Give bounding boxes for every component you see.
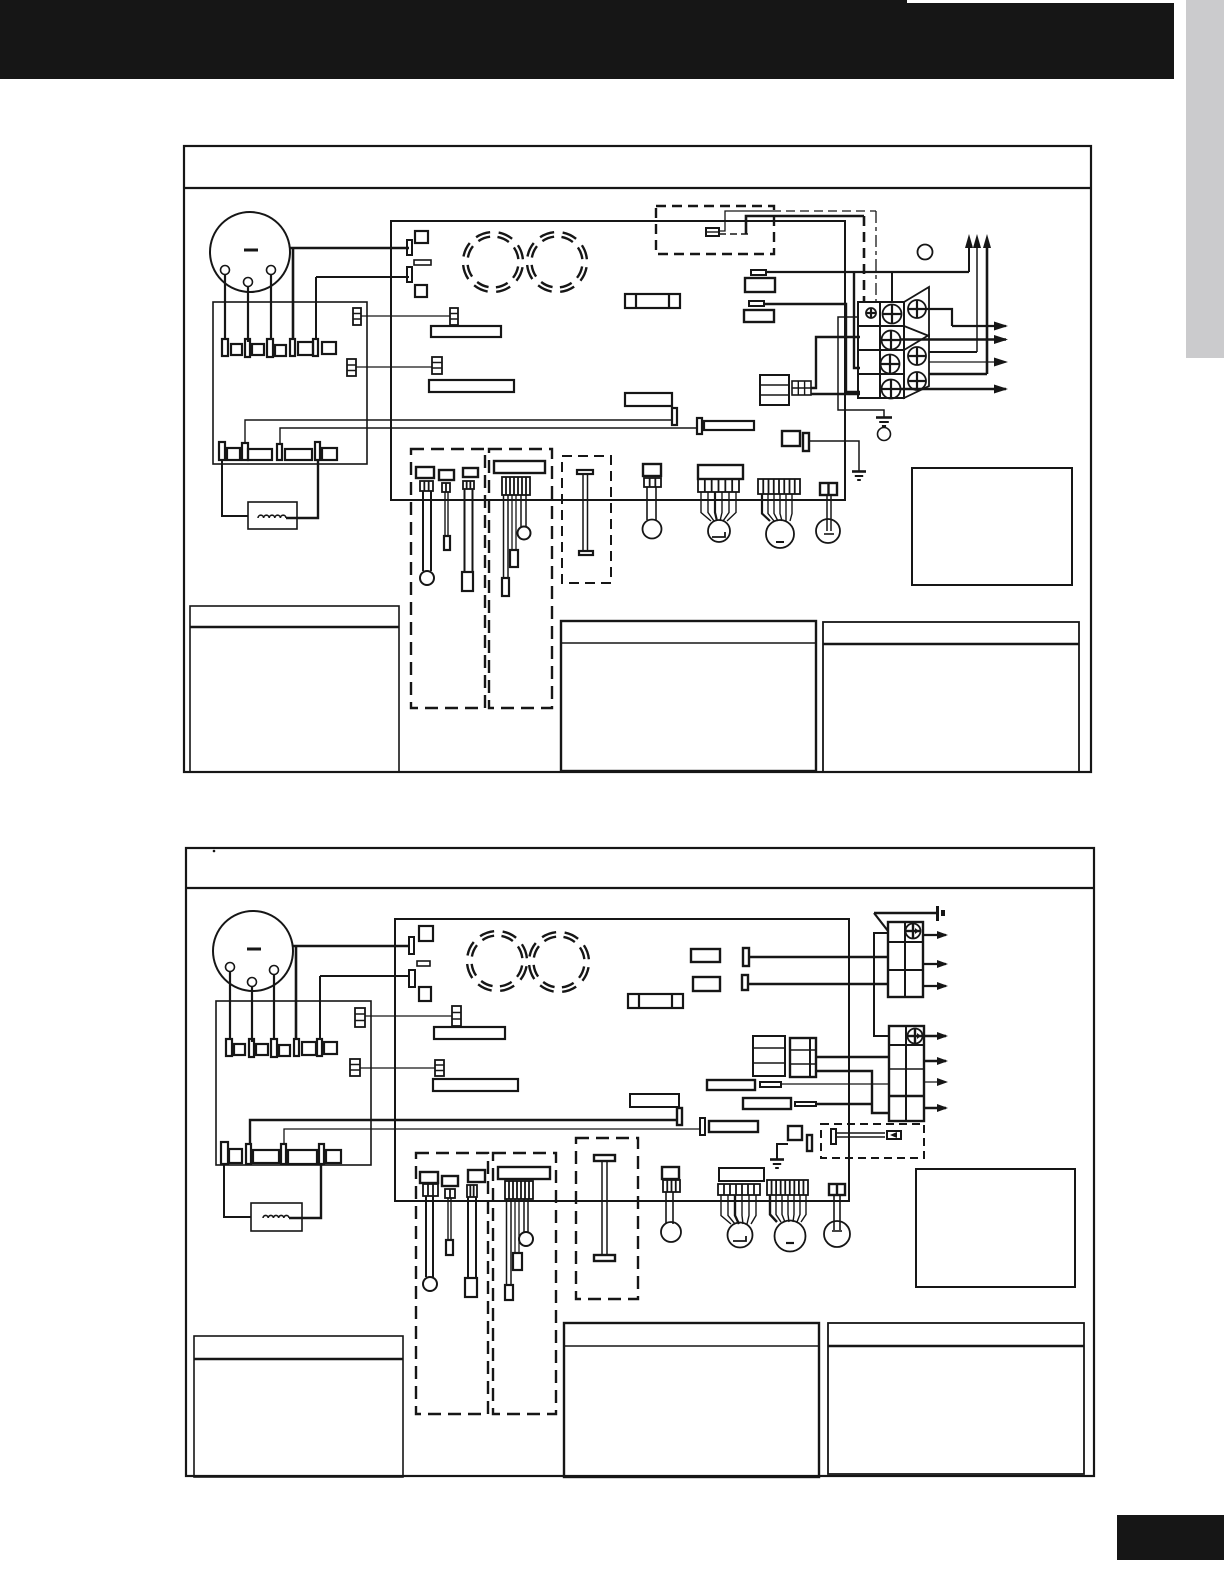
connector H pins (663, 1180, 680, 1192)
aux connector F (820, 483, 837, 495)
relay bar RB2 (743, 1098, 791, 1109)
wire T5 to block A (749, 956, 888, 958)
speck (213, 850, 216, 853)
block A ground stub (936, 906, 945, 921)
block B arrow 1 (924, 1032, 948, 1040)
fig2 box I plug 2 stub (446, 1240, 453, 1255)
mounting hole below ground (878, 428, 891, 441)
igniter dashed box I (411, 449, 485, 708)
wire W2 to block row4 (764, 304, 860, 392)
connector G3 wires (834, 1195, 840, 1230)
wire from spade terminal thin (719, 211, 772, 231)
figure 1 title band line (184, 187, 1091, 189)
wire K2 (356, 366, 432, 368)
fig2 box I plug 2 housing (442, 1176, 458, 1186)
fig2 box II connector pins (505, 1181, 533, 1199)
transformer winding T2a (462, 926, 532, 996)
field wire arrow up 2 (973, 234, 981, 352)
connector G1 wires (721, 1195, 756, 1224)
aux ring F (816, 519, 840, 543)
figure 2 title band line (186, 887, 1094, 889)
fig2 box I plug 2 wires (448, 1198, 451, 1240)
connector H housing (662, 1167, 679, 1179)
wire to ground 2 (809, 441, 859, 471)
board2 connector J2 (409, 970, 415, 987)
blower connector E wires (762, 494, 792, 521)
chassis hole (918, 245, 933, 260)
door switch dashed box (656, 206, 774, 254)
block A screw (906, 924, 921, 939)
blower motor M1 (210, 212, 290, 292)
connector G2 wires (770, 1195, 806, 1222)
connector K4 left (350, 1059, 360, 1076)
terminal block flange upper (904, 287, 929, 336)
block B arrow 3 (924, 1078, 948, 1086)
inducer motor circle G1 (728, 1223, 753, 1248)
box II connector pins (502, 477, 530, 495)
board connector P1 (760, 375, 789, 405)
wire neutral2 to board (320, 976, 409, 1040)
board jumper bar (414, 260, 431, 265)
legend box (912, 468, 1072, 585)
relay R5 (691, 949, 720, 962)
fig2 box I plug 3 terminal (465, 1278, 477, 1297)
transformer winding T1a (458, 227, 528, 297)
fig2 box I plug 3 wires (468, 1197, 476, 1278)
block B screw (908, 1029, 923, 1044)
box I plug 1 ring (420, 571, 434, 585)
flange screw B3 (908, 372, 926, 390)
page number black box (1117, 1515, 1224, 1560)
figure 1 frame (184, 146, 1091, 772)
box I plug 1 pins (420, 481, 433, 491)
relay bar RL3 (434, 1027, 505, 1039)
board2 component S2 (788, 1126, 802, 1140)
wire motor2 pin3 (273, 975, 275, 1041)
igniter connector C housing (643, 464, 661, 476)
terminal T5 (743, 948, 749, 966)
box II wire pair 2 (512, 495, 516, 550)
relay bar RL1 (431, 326, 501, 337)
wire motor line to board (290, 248, 409, 340)
notes box right fig2 (828, 1323, 1084, 1474)
board connector J1 pad (415, 231, 428, 243)
board component S1 (782, 431, 800, 446)
control board 2 (395, 919, 849, 1201)
terminal spade V2 (700, 1118, 705, 1135)
terminal row 2 (219, 442, 337, 460)
terminal row 2 fig2 (221, 1142, 341, 1164)
fig2 box I plug 1 ring (423, 1277, 437, 1291)
box II wire pair 3 (521, 495, 526, 527)
relay R6 (693, 977, 720, 991)
wire motor2 line to board (293, 946, 409, 1040)
ground wire fig2 (777, 1144, 788, 1159)
figure 2 frame (186, 848, 1094, 1476)
board connector P2 grid (792, 381, 811, 395)
wire W3 to block row2 (811, 337, 860, 388)
aux ring G3 (824, 1221, 850, 1247)
igniter ring C (643, 520, 662, 539)
wire motor pin1 to terminal row (224, 275, 226, 341)
terminal block TBB (889, 1026, 924, 1121)
box I plug 3 housing (463, 468, 478, 477)
blower motor circle E (766, 520, 794, 548)
box II ring terminal (518, 527, 531, 540)
transformer winding T2b (524, 927, 594, 997)
fuse F1 (625, 294, 680, 308)
fig2 box I plug 3 housing (468, 1170, 485, 1182)
flame sensor dashed box III (562, 456, 611, 583)
wire drop to block row3 (854, 272, 860, 368)
wire W4 to block row4 (811, 393, 860, 395)
blower motor M2 (213, 911, 293, 991)
wire flame sensor run (280, 428, 697, 444)
motor2 pin 1 (226, 963, 235, 972)
connector K2 right (432, 357, 442, 374)
sensor terminal (697, 418, 702, 434)
terminal screw small (866, 308, 876, 318)
connector G3 (829, 1184, 845, 1195)
connector H wires (666, 1192, 673, 1224)
terminal block TB1 (858, 302, 904, 398)
block B arrow 4 (924, 1104, 948, 1112)
sensor bar (704, 421, 754, 430)
limit switch bar (625, 393, 672, 406)
inducer motor circle D (708, 520, 730, 542)
relay coil bar R4a (749, 301, 764, 306)
board2 component P3 (753, 1036, 785, 1076)
wire door interlock to terminal (286, 460, 318, 518)
relay bar RB1 (707, 1080, 755, 1090)
blower motor circle G2 (775, 1221, 806, 1252)
wire run y1120 (250, 1120, 677, 1144)
wire P4 to block B row4 (816, 1071, 889, 1113)
connector K2 left (347, 359, 356, 376)
connector G2 pins (767, 1180, 808, 1195)
terminal screw A1 (883, 305, 902, 324)
sensor plug (887, 1131, 901, 1139)
box I plug 2 wires (445, 492, 448, 536)
page header black bar (0, 0, 1174, 79)
relay box R3 (745, 278, 775, 292)
box I plug 2 housing (439, 470, 454, 480)
wire K3 (365, 1015, 452, 1017)
door interlock switch 2 (251, 1203, 302, 1231)
flame sensor rod fig2 (594, 1155, 615, 1261)
thick wire over board (746, 216, 864, 234)
wire RB2 join (816, 1103, 872, 1105)
wire neutral to board (316, 277, 409, 340)
fig2 box II wire pair 3 (524, 1199, 528, 1233)
box II terminal 2 (510, 550, 518, 567)
board2 connector J2 pad (419, 987, 431, 1001)
fig2 box II terminal 2 (513, 1253, 522, 1270)
wire motor2 pin2 (251, 987, 253, 1043)
igniter connector C wires (647, 487, 656, 520)
box II relay bar (494, 461, 545, 473)
thermostat terminal box 2 (216, 1001, 371, 1165)
relay coil bar R3a (751, 270, 766, 275)
inducer connector D housing (698, 465, 743, 479)
relay bar RL2 (429, 380, 514, 392)
fig2 box I plug 1 housing (420, 1172, 438, 1183)
notes box left (190, 606, 399, 772)
terminal screw A2 (882, 331, 901, 350)
flame sensor dashed box III fig2 (576, 1138, 638, 1299)
terminal block flange lower (904, 335, 929, 398)
wire K4 (360, 1067, 435, 1069)
dashed wire from spade (719, 233, 748, 235)
terminal spade V1 (677, 1108, 682, 1125)
wire hot run to arrow (766, 271, 969, 273)
ring H (661, 1222, 681, 1242)
connector G1 pins (718, 1184, 760, 1195)
block A flag (874, 913, 888, 931)
connector G1 housing (719, 1168, 764, 1181)
fig2 box I plug 3 pins (467, 1185, 477, 1197)
block A arrow 2 (923, 960, 948, 968)
wire T6 to block A (748, 983, 888, 985)
wire door interlock 2 right (289, 1164, 321, 1218)
fuse F2 (628, 994, 683, 1008)
box II wire pair 1 (504, 495, 509, 578)
box I plug 3 pins (463, 481, 474, 489)
field wire arrow up 3 (983, 234, 991, 374)
ground symbol G2 (852, 472, 866, 481)
terminal T6 (742, 975, 748, 990)
wire motor2 pin1 (229, 972, 231, 1041)
connector K3 left (355, 1008, 365, 1027)
board terminal S1b (803, 433, 809, 451)
fig2 box I plug 1 wires (426, 1196, 433, 1277)
fig2 box I plug 1 pins (423, 1184, 438, 1196)
terminal row 1 (222, 339, 336, 357)
relay bar RB4 (709, 1121, 758, 1132)
connector K4 right (435, 1060, 444, 1076)
box I plug 2 pins (442, 483, 450, 492)
board2 connector pad J1 (419, 926, 433, 941)
notes box right (823, 622, 1079, 772)
board2 terminal S2b (807, 1135, 812, 1151)
spade terminal in dashed box (706, 228, 719, 236)
fig2 box II ring terminal (519, 1232, 533, 1246)
control board 1 (391, 221, 845, 500)
motor pin 3 (267, 266, 276, 275)
block A arrow 3 (923, 982, 948, 990)
wire K1 (361, 315, 450, 317)
flange screw B1 (908, 300, 926, 318)
ground wire from block (838, 317, 884, 417)
wire block A to block B (874, 933, 889, 1036)
fig2 box I plug 2 pins (445, 1189, 455, 1198)
block A ground run (874, 912, 937, 915)
board2 component P4 grid (790, 1038, 816, 1077)
wire run y1129 (284, 1129, 700, 1144)
field wire arrow up 1 (965, 234, 973, 272)
connector K1 right (450, 308, 458, 325)
thermostat terminal box (213, 302, 367, 464)
connector K1 left (353, 308, 361, 325)
block A arrow 1 (923, 931, 948, 939)
relay bar RB3 (630, 1094, 679, 1107)
box I plug 3 wires (465, 489, 473, 572)
motor2 pin 3 (270, 966, 279, 975)
board2 jumper bar (417, 961, 430, 966)
motor pin 1 (221, 266, 230, 275)
dashed wire run top (772, 210, 876, 212)
inducer connector D wires (701, 492, 736, 521)
gray side tab (1186, 0, 1224, 358)
wire RB1 to block B row3 (781, 1083, 889, 1085)
aux connector F wires (827, 495, 831, 531)
wire P4 to block B row2 (816, 1056, 889, 1058)
board connector J2 (407, 267, 412, 282)
relay bar RB2 tab (795, 1102, 816, 1106)
wire W limit to board (245, 420, 672, 443)
board connector J2 pad (415, 285, 427, 297)
motor pin 2 (244, 278, 253, 287)
terminal row 1 fig2 (226, 1039, 337, 1057)
fig2 box II relay bar (498, 1167, 550, 1179)
wire to door interlock left (222, 460, 248, 516)
ground symbol G3 (770, 1160, 784, 1169)
igniter dashed box II fig2 (493, 1153, 556, 1414)
flame sensor rod (577, 470, 593, 555)
box I plug 2 stub (444, 536, 450, 550)
blower connector E pins (758, 479, 800, 494)
field wire arrow right 3 (929, 358, 1008, 367)
transformer winding T1b (522, 227, 592, 297)
door interlock switch (248, 502, 297, 529)
connector K3 right (452, 1006, 461, 1026)
fig2 box II wire pair 2 (515, 1199, 519, 1253)
box I plug 3 terminal (462, 572, 473, 591)
wire drop to block row1 (891, 272, 893, 303)
wire flange to arrow3 (929, 373, 987, 375)
legend box fig2 (916, 1169, 1075, 1287)
field wire arrow right 1 (926, 309, 1008, 331)
terminal screw A3 (881, 355, 900, 374)
terminal block TBA (888, 922, 923, 997)
igniter dashed box I fig2 (416, 1153, 488, 1414)
limit switch terminal (672, 408, 677, 425)
dash-dot wire drop (875, 211, 877, 302)
block B arrow 2 (924, 1057, 948, 1065)
wire motor pin2 to terminal row (247, 287, 249, 343)
relay box R4 (744, 310, 774, 322)
field wire arrow right 4 (900, 385, 1008, 394)
board connector J1 (407, 240, 412, 255)
field wire arrow right 2 (900, 335, 1008, 344)
fig2 box II wire pair 1 (507, 1199, 512, 1285)
flange screw B2 (908, 347, 926, 365)
notes box left fig2 (194, 1336, 403, 1477)
dashed thick wire drop (863, 216, 866, 302)
igniter dashed box II (489, 449, 552, 708)
sensor terminal in dashed box (831, 1129, 836, 1144)
inducer connector D pins (698, 479, 739, 492)
sensor twin lead (836, 1133, 885, 1137)
ground symbol G1 (876, 418, 892, 427)
relay bar RB1 tab (760, 1082, 781, 1087)
fig2 box II terminal 1 (505, 1285, 513, 1300)
wire flange to arrow2 (929, 351, 977, 353)
box I plug 1 wires (423, 491, 431, 571)
notes box middle (561, 621, 816, 771)
wire motor pin3 to terminal row (270, 275, 272, 341)
terminal screw A4 (882, 380, 901, 399)
relay bar RL4 (433, 1079, 518, 1091)
sensor dashed box fig2 (821, 1124, 924, 1158)
motor2 pin 2 (248, 978, 257, 987)
board2 connector J1 (409, 937, 414, 954)
box II terminal 1 (502, 578, 509, 596)
igniter connector C pins (644, 478, 661, 487)
box I plug 1 housing (416, 467, 434, 478)
notes box middle fig2 (564, 1323, 819, 1477)
header notch (907, 0, 1174, 3)
wire to door interlock 2 (224, 1164, 251, 1217)
